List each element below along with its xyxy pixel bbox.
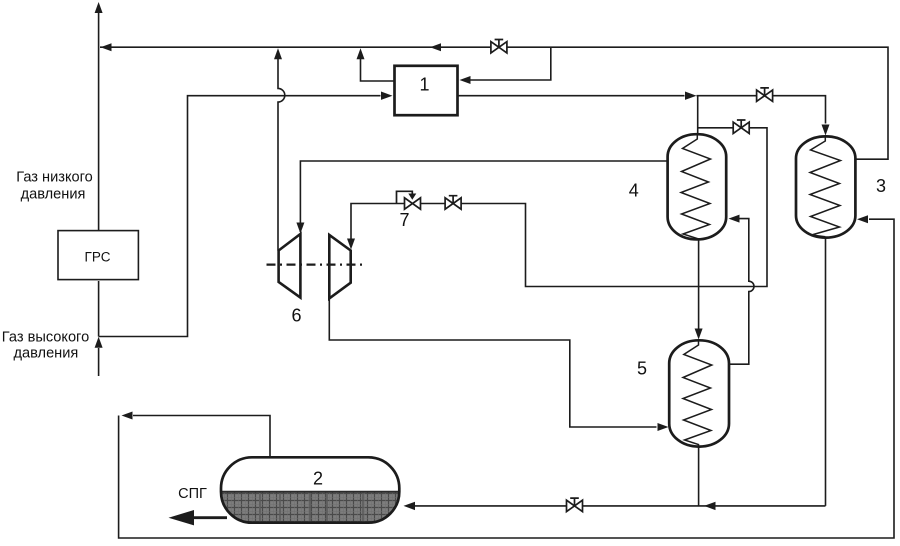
wire: LNG product line [194, 516, 227, 519]
arrow: mid top line pointing left [430, 43, 441, 51]
arrow: down into expander inlet [296, 223, 304, 234]
coil of HX4 [681, 135, 711, 240]
valve on HX3 feed line [757, 88, 773, 102]
svg-text:4: 4 [629, 181, 639, 201]
svg-text:5: 5 [637, 359, 647, 379]
wire: unit1 outlet right [459, 95, 685, 97]
wire: HP gas to GRS bottom [98, 281, 100, 337]
wire: vessel 2 boil-off loop to HX3 right [133, 416, 270, 458]
arrow: HP gas up [95, 337, 103, 348]
wire: loop down, across bottom, up right side into HX3 [119, 219, 894, 538]
svg-text:ГРС: ГРС [85, 250, 111, 265]
arrow: into HX3 right side [857, 215, 868, 223]
wire: compressor outlet to HX5 left [329, 298, 656, 427]
wire: low-pressure gas header (vertical at left) [98, 11, 100, 230]
liquid fill of vessel 2 [221, 492, 399, 523]
liquid level line [221, 491, 399, 493]
vessel 2 outline [221, 457, 399, 522]
wire: HX5 right tap up to HX4 right side with hop [729, 219, 754, 365]
arrow: into vessel 2 right side [404, 502, 416, 510]
wire: HX4 tap through valves to compressor [351, 128, 767, 287]
compressor (right trapezoid of unit 6) [329, 235, 350, 299]
arrow: bottom line flow left after HX5 join [704, 502, 716, 510]
control valve 7 with actuator [397, 191, 421, 209]
heat exchanger 4 (vessel) [668, 134, 727, 239]
arrow: down into compressor inlet [347, 239, 355, 250]
hand valve near valve 7 [445, 196, 461, 210]
wire: unit1 left outlet up to top line [361, 58, 394, 81]
arrow: into LP header (left end of top line) [101, 43, 112, 51]
arrow: down into HX3 top [822, 125, 830, 136]
svg-text:7: 7 [399, 210, 409, 230]
arrow: LP gas outlet up [95, 2, 103, 13]
unit 1 (box) [395, 66, 458, 115]
svg-text:давления: давления [14, 346, 79, 362]
wire: junction to HX3 top [697, 96, 826, 124]
arrow: into unit1 right side [460, 76, 471, 84]
GRS box [58, 231, 138, 280]
svg-text:Газ низкого: Газ низкого [16, 170, 92, 186]
svg-text:Газ высокого: Газ высокого [2, 330, 89, 346]
svg-text:2: 2 [313, 469, 323, 489]
wire: bottom collection line to vessel 2 [415, 505, 826, 507]
arrow: down into HX5 top [695, 329, 703, 340]
arrow: before HX4 top junction [685, 92, 697, 100]
arrow: into HX4 right side [729, 215, 740, 223]
wire: expander outlet up with hop over feed line [278, 58, 285, 251]
wire: HX4 bottom down to HX5 top [698, 239, 700, 328]
coil of HX5 [683, 341, 712, 447]
heat exchanger 3 (vessel) [796, 136, 855, 237]
svg-text:1: 1 [419, 75, 429, 95]
svg-text:давления: давления [21, 186, 86, 202]
svg-text:6: 6 [291, 306, 301, 326]
wire: HX4 left tap to expander inlet [300, 161, 667, 232]
valve on HX4 tap line [733, 120, 749, 134]
wire: high-pressure gas inlet [98, 348, 100, 376]
shaft (dash-dot) [267, 264, 363, 266]
expander (left trapezoid of unit 6) [279, 234, 301, 298]
valve on bottom collection line [567, 498, 583, 512]
valve on top return line [491, 40, 507, 54]
wire: HP branch to unit1 [99, 96, 381, 337]
arrow: unit1 outlet up into top line [357, 48, 365, 59]
arrow: LNG product out (large) [169, 510, 195, 525]
wire: HX3 bottom down [825, 238, 827, 506]
wire: junction down into HX4 top [697, 96, 699, 135]
wire: top return line to HX3 [100, 47, 888, 159]
wire: HX5 bottom down to collection line [698, 447, 700, 506]
arrow: into HX5 left side [658, 423, 669, 431]
wire: top line down into unit1 right side [470, 47, 551, 80]
arrow: feed into unit1 left [381, 92, 393, 100]
arrow: expander outlet up into top line [274, 48, 282, 59]
svg-text:3: 3 [876, 176, 886, 196]
arrow: boil-off left [122, 412, 133, 420]
coil of HX3 [810, 137, 841, 237]
heat exchanger 5 (vessel) [669, 340, 729, 446]
svg-text:СПГ: СПГ [178, 486, 207, 502]
